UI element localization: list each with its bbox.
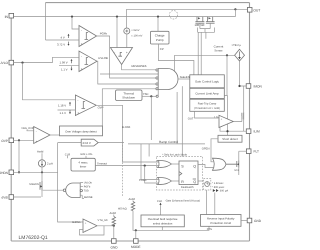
wire reverse comparator output to AND gate bbox=[122, 65, 157, 70]
wire shutdown gate output to Mshdn bbox=[43, 189, 64, 191]
svg-text:-: - bbox=[81, 54, 82, 58]
wire latch Q to fault OR bbox=[198, 165, 214, 168]
wire clamp comparator output bbox=[50, 134, 60, 136]
svg-text:SHDN: SHDN bbox=[0, 171, 9, 175]
hysteresis glyph inside reverse comparator bbox=[118, 52, 122, 56]
chip outline top border bbox=[46, 2, 250, 4]
wire timeout branch to reset OR bbox=[145, 166, 158, 183]
short detect block bbox=[218, 135, 242, 142]
wire comparator feedback bbox=[80, 226, 105, 235]
svg-text:-: - bbox=[221, 124, 222, 128]
comparator U6 overvoltage clamp bbox=[34, 127, 50, 144]
wire current source to reverse block bbox=[214, 193, 216, 215]
wire CLK arrow from mode block bbox=[160, 205, 162, 216]
wire sense rail down to current limit amp bbox=[226, 55, 228, 95]
svg-text:UVLOB: UVLOB bbox=[98, 56, 108, 60]
flip-flop clock wedge bbox=[179, 172, 182, 176]
svg-text:PGFb: PGFb bbox=[84, 185, 91, 188]
svg-text:24.8 V: 24.8 V bbox=[83, 141, 91, 145]
pin IN bbox=[9, 13, 14, 18]
AND gate U5 GateEN bbox=[158, 69, 178, 90]
svg-text:+: + bbox=[36, 139, 38, 143]
wire Gm amp output down bbox=[126, 34, 128, 48]
wire ramp control bbox=[128, 92, 205, 144]
wire set OR output to S bbox=[171, 163, 179, 165]
svg-text:1 %: 1 % bbox=[214, 116, 219, 119]
wire current source to Mshdn bbox=[41, 167, 43, 181]
wire set OR inputs bbox=[123, 162, 160, 166]
svg-text:* Only for Latch Mode: * Only for Latch Mode bbox=[162, 154, 188, 157]
svg-text:1.99 V: 1.99 V bbox=[60, 61, 68, 65]
fast trip comparator block bbox=[190, 99, 225, 111]
gate control logic block bbox=[190, 75, 225, 88]
svg-text:+: + bbox=[77, 111, 79, 115]
svg-text:R: R bbox=[181, 180, 184, 184]
comparator U8 SHDN threshold bbox=[83, 219, 97, 233]
wire UVLO pin to comparator bbox=[14, 57, 79, 62]
node junction on IN rail feeding charge pump bbox=[157, 16, 159, 18]
pin FLT bbox=[246, 149, 251, 154]
wire IN rail bbox=[14, 16, 236, 18]
comparator U14 reverse detect bbox=[110, 48, 132, 65]
wire OVP pin to clamp comparator bbox=[14, 139, 34, 141]
wire OUT rail drop to FET drain bbox=[234, 9, 236, 16]
wire open detect to fault OR bbox=[211, 139, 218, 162]
wire PGb output to AND gate bbox=[97, 36, 157, 78]
dashed mode partition bbox=[121, 145, 123, 196]
clamp tag 24.8 V bbox=[81, 139, 98, 146]
wire clamp detect output up to AND gate bbox=[102, 89, 156, 126]
svg-text:GateEN: GateEN bbox=[180, 75, 190, 79]
svg-text:1.1 V: 1.1 V bbox=[60, 111, 67, 115]
wire timer input stubs bbox=[68, 156, 87, 158]
wire charge pump output CP bbox=[158, 44, 194, 76]
wire clamp rail bbox=[58, 142, 124, 144]
pin MODE bbox=[134, 239, 139, 244]
svg-text:select detection: select detection bbox=[153, 222, 173, 226]
pin GND bottom bbox=[112, 239, 117, 244]
svg-text:CP: CP bbox=[160, 47, 164, 51]
wire gate logic aux bus bbox=[181, 86, 183, 156]
svg-text:Short detect: Short detect bbox=[222, 137, 238, 141]
svg-text:REVERSEb: REVERSEb bbox=[132, 64, 147, 68]
current sense element dashed circle on IN rail bbox=[169, 11, 177, 19]
node junction timeout branch bbox=[144, 165, 146, 167]
svg-text:-: - bbox=[77, 98, 78, 102]
wire PORb gate input bbox=[100, 73, 158, 75]
svg-text:1.1 V: 1.1 V bbox=[61, 67, 68, 71]
pin dVdt bbox=[9, 195, 14, 200]
wire gate rail to current sense diamond bbox=[175, 54, 235, 56]
wire retry to reverse block bbox=[205, 190, 207, 215]
logic gate U13 fault OR bbox=[213, 158, 227, 170]
svg-text:B-ONb: B-ONb bbox=[122, 126, 131, 129]
reverse input polarity block bbox=[201, 215, 242, 227]
wire FLT pin to open drain FET bbox=[239, 151, 247, 160]
hysteresis glyph inside PGb bbox=[85, 33, 89, 40]
svg-text:MODE: MODE bbox=[131, 245, 141, 249]
node junction on IN rail feeding PGb comparator bbox=[71, 16, 73, 18]
svg-text:-: - bbox=[81, 29, 82, 33]
svg-text:Overload fault response: Overload fault response bbox=[148, 217, 178, 221]
svg-text:+: + bbox=[81, 67, 83, 71]
dashed retry timer box bbox=[204, 179, 211, 191]
svg-text:Protection circuit: Protection circuit bbox=[210, 221, 231, 225]
svg-text:OVP: OVP bbox=[98, 106, 104, 110]
wire rail drop to AND gate top bbox=[174, 55, 176, 71]
logic gate U10 reset OR bbox=[158, 177, 172, 184]
svg-text:RTN: RTN bbox=[207, 228, 212, 231]
node junction at IMON branch bbox=[238, 85, 240, 87]
node junction UVLO divider bbox=[21, 62, 23, 64]
wire current limit amp to short detect bbox=[224, 96, 227, 136]
wire GateEN output bbox=[178, 78, 190, 80]
svg-text:PGFb: PGFb bbox=[100, 32, 108, 36]
wire fault FET source bbox=[238, 168, 240, 176]
wire PORb drop bbox=[140, 144, 142, 180]
node junction MODE tap bbox=[135, 229, 137, 231]
wire PORb input bbox=[141, 179, 160, 181]
timer block 4 msec bbox=[71, 158, 95, 171]
comparator U3 UVLOb bbox=[79, 51, 97, 72]
svg-text:+: + bbox=[126, 50, 128, 54]
svg-text:IMON: IMON bbox=[254, 85, 263, 89]
svg-text:timer: timer bbox=[80, 165, 86, 169]
current source I3 300uA bbox=[213, 189, 216, 192]
transistor Q2 channel and gate bars bbox=[206, 22, 215, 24]
svg-text:LM76202-Q1: LM76202-Q1 bbox=[19, 235, 48, 241]
svg-text:2 μA: 2 μA bbox=[47, 162, 53, 166]
transistor Q1 body diode arrow bbox=[198, 17, 200, 19]
wire overload block to mode rail bbox=[161, 227, 163, 231]
comparator U4 OVP lockout bbox=[75, 95, 96, 116]
svg-text:Fast-Trip Comp: Fast-Trip Comp bbox=[198, 103, 217, 106]
svg-text:-: - bbox=[85, 229, 86, 233]
charge pump block bbox=[151, 31, 170, 44]
wire OUT sense to PGb plus input bbox=[46, 39, 80, 41]
wire diamond to IMON bbox=[240, 61, 247, 86]
node junction on sense rail bbox=[226, 54, 228, 56]
svg-text:-: - bbox=[36, 129, 37, 133]
svg-text:Reverse Input Polarity: Reverse Input Polarity bbox=[207, 217, 235, 221]
wire OUT rail bbox=[127, 8, 248, 10]
svg-text:OPEN: OPEN bbox=[202, 147, 210, 150]
svg-text:+: + bbox=[81, 42, 83, 46]
pin ILIM bbox=[246, 129, 251, 134]
svg-text:UVLOb: UVLOb bbox=[84, 182, 93, 185]
resistor R1 pullup bbox=[113, 215, 115, 217]
svg-text:4 V: 4 V bbox=[61, 36, 65, 40]
wire reverse block to GND pin bbox=[241, 220, 247, 222]
pin OVP bbox=[9, 138, 14, 143]
wire IN to PGb inverting input bbox=[72, 17, 79, 29]
current source I1 sense mirror diamond bbox=[235, 49, 245, 61]
over voltage clamp detect block bbox=[60, 126, 103, 136]
wire gate leads of pass FETs bbox=[198, 23, 215, 32]
node junction TSD branch bbox=[150, 95, 152, 97]
node junction output node bbox=[113, 225, 115, 227]
svg-text:OUT: OUT bbox=[253, 8, 260, 12]
node junction on OVP wire bbox=[18, 139, 20, 141]
svg-text:FaultLatch: FaultLatch bbox=[181, 186, 194, 189]
comparator U2 PGb bbox=[79, 26, 97, 47]
svg-text:ILIM: ILIM bbox=[254, 130, 261, 134]
wire timer output bbox=[95, 165, 158, 167]
svg-text:Shutdown: Shutdown bbox=[122, 96, 135, 100]
node junction on IN rail feeding clamp branch bbox=[116, 16, 118, 18]
svg-text:-: - bbox=[114, 50, 115, 54]
svg-text:GND: GND bbox=[111, 246, 119, 250]
wire TSD bus down bbox=[150, 96, 152, 140]
wire latch mode drop bbox=[148, 144, 150, 157]
transistor Q2 body diode arrow bbox=[209, 17, 211, 19]
svg-text:Gate Enhanced level (Hiccup): Gate Enhanced level (Hiccup) bbox=[166, 200, 201, 203]
wire dVdt rail to Mshdn source bbox=[14, 196, 41, 198]
wire OVP branch down to SHDN rail bbox=[18, 140, 20, 172]
transistor Q1 channel and gate bars bbox=[195, 22, 204, 24]
svg-text:(Threshold 1.8 × I LIM): (Threshold 1.8 × I LIM) bbox=[194, 107, 220, 110]
wire OUT rail corner down to Gm amp bbox=[126, 9, 128, 28]
wire gate input TSD stub bbox=[81, 190, 84, 192]
pin IMON bbox=[246, 84, 251, 89]
chip outline bottom border bbox=[11, 240, 249, 242]
svg-text:OUT: OUT bbox=[188, 118, 194, 121]
svg-text:I LIM ≥ I OL: I LIM ≥ I OL bbox=[80, 153, 93, 156]
transistor Q1 pass FET source/drain stubs bbox=[197, 17, 213, 22]
wire IN rail to charge pump bbox=[157, 17, 159, 32]
logic gate U7 shutdown NAND (mirrored) bbox=[66, 183, 81, 198]
op-amp U1 Gm sense amplifier circle bbox=[124, 28, 130, 34]
dashed latch mode box bbox=[157, 157, 203, 191]
svg-text:Q: Q bbox=[193, 180, 196, 184]
wire comparator output bbox=[97, 225, 114, 227]
wire IN sense into reverse comparator bbox=[116, 17, 118, 48]
wire ILIM to current limit amp bbox=[220, 128, 246, 132]
pin OUT bbox=[247, 8, 252, 13]
op-amp U12 current limit bbox=[219, 115, 233, 127]
overload fault response block bbox=[141, 215, 184, 227]
svg-text:3.72 V: 3.72 V bbox=[57, 43, 65, 47]
logic gate U9 set OR bbox=[158, 160, 172, 167]
svg-text:Sense: Sense bbox=[214, 48, 223, 52]
wire gate input stubs bbox=[80, 183, 84, 199]
wire reset OR output to R bbox=[171, 180, 179, 182]
transistor Q3 Mshdn bbox=[40, 181, 42, 191]
svg-text:×TB 2 μ: ×TB 2 μ bbox=[232, 44, 242, 47]
svg-text:GND: GND bbox=[254, 219, 262, 223]
svg-text:OVP: OVP bbox=[1, 139, 8, 143]
svg-text:FLT: FLT bbox=[254, 150, 259, 154]
pin GND right bbox=[247, 218, 252, 223]
svg-text:* 1.8msec: * 1.8msec bbox=[212, 182, 224, 185]
pin UVLO bbox=[9, 60, 14, 65]
transistor Q5 fault FET M3 bbox=[226, 161, 239, 168]
svg-text:* 800 μsec: * 800 μsec bbox=[212, 186, 225, 189]
wire OVP comparator plus stub bbox=[58, 109, 76, 111]
node junction on OUT rail bbox=[234, 8, 236, 10]
wire VBG ref stub bbox=[27, 130, 34, 131]
node junction SHDN node bbox=[41, 171, 43, 173]
svg-text:Pump: Pump bbox=[156, 38, 164, 42]
chip outline right border bbox=[249, 3, 251, 241]
wire TSD to AND gate bbox=[142, 95, 156, 97]
pin SHDN bbox=[9, 170, 14, 175]
thermal shutdown block bbox=[116, 90, 143, 101]
wire latch Qb to retry timer bbox=[198, 180, 204, 182]
retry clock icon bbox=[205, 182, 210, 187]
svg-text:1.18 V: 1.18 V bbox=[58, 103, 66, 107]
wire OVP output to ramp latch bus bbox=[96, 105, 122, 162]
svg-text:180 mΩ: 180 mΩ bbox=[195, 23, 205, 27]
svg-text:300 μA: 300 μA bbox=[220, 190, 229, 193]
svg-text:± 100 mV: ± 100 mV bbox=[131, 35, 142, 38]
wire mode divider down bbox=[133, 211, 209, 231]
transistor Q4 limit FET bbox=[242, 112, 244, 119]
wire output node to GND pin bbox=[113, 226, 115, 239]
node junction short detect tap bbox=[226, 130, 228, 132]
wire SHDN rail bbox=[14, 171, 58, 173]
wire UVLO sense down to OVP comparator bbox=[23, 63, 76, 100]
chip outline left border bbox=[10, 13, 12, 241]
svg-text:Q: Q bbox=[193, 165, 196, 169]
svg-text:CLK: CLK bbox=[157, 200, 162, 203]
AND gate input bubbles bbox=[156, 69, 158, 71]
svg-text:400 kΩ: 400 kΩ bbox=[118, 207, 127, 210]
svg-text:V BG_OVP: V BG_OVP bbox=[21, 127, 33, 130]
svg-text:Avdd: Avdd bbox=[37, 149, 44, 153]
wire OUT sense line to top border bbox=[45, 3, 47, 40]
svg-text:Gate Control Logic: Gate Control Logic bbox=[195, 80, 220, 84]
svg-text:Timeout: Timeout bbox=[97, 161, 107, 165]
svg-text:SHDNB: SHDNB bbox=[84, 196, 93, 199]
svg-text:V TH_SD: V TH_SD bbox=[98, 219, 108, 222]
wire TSD bubble leg bbox=[157, 90, 159, 97]
svg-text:Over Voltage clamp detect: Over Voltage clamp detect bbox=[65, 130, 97, 133]
wire setpoint into op-amp bbox=[195, 111, 220, 118]
svg-text:dVdt: dVdt bbox=[1, 196, 8, 200]
wire UVLOb output to AND gate bbox=[97, 61, 156, 84]
svg-text:SHDNb: SHDNb bbox=[72, 221, 81, 224]
svg-text:M SHDN: M SHDN bbox=[29, 183, 39, 186]
svg-text:= GmV: = GmV bbox=[131, 29, 139, 32]
wire UVLOb plus input stub bbox=[59, 64, 79, 66]
wire SHDN sense drop bbox=[58, 143, 83, 222]
svg-text:IN: IN bbox=[5, 15, 9, 19]
current limit amp block bbox=[190, 88, 225, 98]
svg-text:TSD: TSD bbox=[143, 92, 149, 96]
svg-text:Ramp Control: Ramp Control bbox=[159, 140, 178, 144]
current source I2 2uA pullup bbox=[41, 153, 43, 160]
wire MODE pin riser bbox=[135, 230, 137, 238]
svg-text:Current Limit Amp: Current Limit Amp bbox=[195, 92, 219, 96]
resistor R2 mode divider 400k bbox=[132, 201, 134, 202]
flip-flop U11 SR latch bbox=[179, 161, 198, 185]
wire sense leads down to gate logic bbox=[198, 32, 206, 75]
wire Mshdn source down bbox=[41, 191, 43, 198]
svg-text:TSD: TSD bbox=[84, 190, 89, 193]
svg-text:Avdd: Avdd bbox=[110, 211, 117, 215]
svg-text:UVLO: UVLO bbox=[0, 61, 9, 65]
svg-text:Avdd: Avdd bbox=[129, 197, 136, 201]
